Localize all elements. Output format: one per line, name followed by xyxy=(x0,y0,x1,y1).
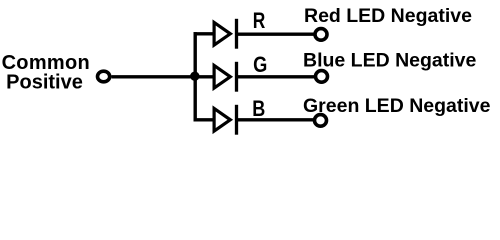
diode D1 (red LED) xyxy=(214,19,236,49)
svg-text:Green LED Negative: Green LED Negative xyxy=(303,95,491,117)
terminal: common positive xyxy=(98,71,110,82)
terminal: green LED negative xyxy=(315,115,327,127)
svg-text:B: B xyxy=(252,97,265,121)
diode D3 (green LED) xyxy=(214,105,236,135)
svg-text:G: G xyxy=(253,54,267,78)
diode D2 (blue LED) xyxy=(214,62,236,92)
wire: D1 cathode to red terminal xyxy=(237,33,315,36)
node: junction xyxy=(190,72,199,81)
terminal: red LED negative xyxy=(315,29,327,41)
svg-text:Red LED Negative: Red LED Negative xyxy=(304,5,472,27)
wire: bottom branch to D3 anode xyxy=(194,118,216,121)
wire: common positive terminal to middle diode anode xyxy=(112,75,216,78)
svg-text:R: R xyxy=(253,9,266,33)
terminal: blue LED negative xyxy=(316,71,328,83)
svg-text:Blue LED Negative: Blue LED Negative xyxy=(303,49,477,71)
wire: D2 cathode to blue terminal xyxy=(237,75,315,78)
wire: vertical branch bus xyxy=(193,32,196,121)
svg-text:Positive: Positive xyxy=(6,72,83,94)
wire: top branch to D1 anode xyxy=(194,32,216,35)
wire: D3 cathode to green terminal xyxy=(237,118,314,121)
label: Common Positive xyxy=(2,52,90,94)
